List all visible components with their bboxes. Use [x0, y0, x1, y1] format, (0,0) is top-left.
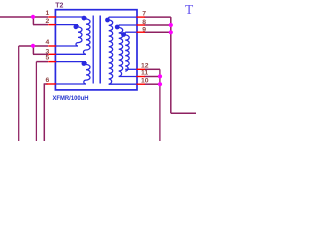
junction dot net1 [31, 15, 35, 19]
junction dot net4 [31, 44, 35, 48]
wire pin9 horizontal [144, 31, 170, 33]
svg-text:1: 1 [46, 10, 50, 17]
svg-text:2: 2 [46, 18, 50, 25]
pin 9 stub [137, 31, 146, 33]
svg-text:6: 6 [46, 77, 50, 84]
winding W2 coil [76, 25, 82, 46]
transformer T2 body box [55, 10, 137, 90]
svg-text:T2: T2 [55, 2, 63, 9]
junction dot pin11 [158, 74, 162, 78]
pin 10 stub [137, 83, 146, 85]
wires maroon [0, 17, 196, 141]
svg-text:11: 11 [141, 70, 148, 77]
pin 3 stub [48, 53, 56, 55]
wire pin11 horizontal [144, 76, 160, 78]
winding W5 coil [119, 25, 123, 77]
svg-text:T: T [185, 2, 194, 17]
wire pin6 horizontal [44, 83, 48, 85]
wire pin2 horizontal [33, 24, 48, 26]
junction dot pin8 [169, 23, 173, 27]
core line right [99, 16, 101, 84]
svg-text:XFMR/100uH: XFMR/100uH [53, 95, 89, 102]
pin 12 stub [137, 68, 146, 70]
svg-text:8: 8 [142, 19, 146, 26]
winding W1 pin1-pin3 leads [56, 17, 137, 84]
svg-text:12: 12 [141, 62, 149, 69]
wire pin8 horizontal [144, 24, 170, 26]
pin 2 stub [48, 24, 56, 26]
winding W3 coil [84, 62, 90, 84]
winding W6 leads pin9 pin12 [125, 31, 136, 33]
wire vertical x=44 down [43, 84, 45, 141]
wire vertical x=160 down [159, 69, 161, 141]
pin 1 stub [48, 16, 56, 18]
winding W3 leads pin5 pin6 [56, 61, 87, 63]
winding W6 coil [125, 32, 129, 71]
pin 11 stub [137, 76, 146, 78]
wire horizontal y=113.2 to right edge [171, 112, 196, 114]
wire net1 horizontal y=17 [0, 16, 48, 18]
winding W4 coil [109, 17, 113, 84]
wire pin10 horizontal [144, 83, 160, 85]
wire pin12 horizontal [144, 68, 160, 70]
junction dot pin9 [169, 30, 173, 34]
svg-text:5: 5 [46, 55, 50, 62]
wire pin4 horizontal y=46 [19, 45, 48, 47]
svg-text:9: 9 [142, 26, 146, 33]
polarity dot W5 [115, 25, 120, 30]
winding W1 coil [84, 18, 91, 55]
wire pin7 horizontal right [144, 16, 170, 18]
pin 5 stub [48, 61, 56, 63]
pin 4 stub [48, 45, 56, 47]
svg-text:7: 7 [142, 11, 146, 18]
core line left [92, 16, 94, 84]
svg-text:4: 4 [46, 39, 50, 46]
red pin stubs [47, 17, 146, 84]
wire vertical x=33 pin4 to pin3 [32, 46, 34, 54]
wire vertical x=18.7 down [18, 46, 20, 141]
polarity dot W6 [121, 32, 126, 37]
polarity dot W3 [82, 61, 87, 66]
pin 6 stub [47, 83, 57, 85]
winding W2 leads pin2 pin4 [56, 24, 79, 26]
svg-text:10: 10 [141, 77, 149, 84]
polarity dot W2 [74, 24, 79, 29]
wire pin3 horizontal [33, 53, 48, 55]
pin 7 stub [137, 16, 146, 18]
polarity dot W1 [82, 16, 87, 21]
wire net1 vertical to pin2 [32, 17, 34, 25]
wire vertical x=36.4 down [35, 62, 37, 141]
pin 8 stub [137, 24, 146, 26]
wire vertical x=170.8 [170, 17, 172, 113]
polarity dot W4 [105, 18, 110, 23]
junction dot pin10 [158, 82, 162, 86]
wire pin5 horizontal [36, 61, 48, 63]
winding W4 leads pin7 pin10 [109, 16, 137, 18]
winding W5 leads pin8 pin11 [119, 24, 137, 26]
